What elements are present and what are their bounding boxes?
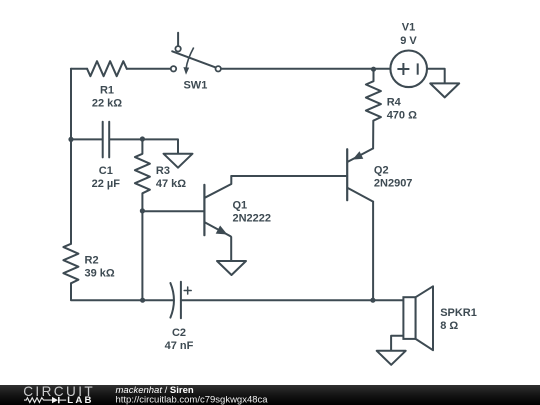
wire left rail bottom + bottom wire to C2 — [71, 283, 173, 300]
transistor Q1 collector diagonal — [205, 176, 231, 198]
ground G1 near R3 — [164, 154, 193, 168]
wire V1 to ground — [427, 69, 445, 84]
svg-text:47 nF: 47 nF — [165, 340, 194, 352]
switch SW1 arrow — [186, 48, 194, 69]
transistor Q1 base wire — [142, 210, 204, 212]
transistor Q2 bar — [346, 149, 348, 200]
wire R1 to SW1 — [127, 68, 171, 70]
svg-text:9 V: 9 V — [400, 35, 417, 47]
node dot bottom wire left — [140, 298, 145, 303]
node dot R3 / Q1 base — [140, 208, 145, 213]
svg-text:Q1: Q1 — [233, 200, 248, 212]
wire C2 to speaker — [181, 299, 404, 301]
wire left rail top segment — [70, 69, 72, 244]
V1 plus symbol — [397, 63, 417, 75]
wire R3 node down to bottom — [141, 211, 143, 300]
resistor R4 — [366, 69, 381, 149]
node dot bottom wire right — [370, 298, 375, 303]
transistor Q2 emitter diagonal — [348, 148, 373, 161]
wire Q1 collector to Q2 base — [231, 175, 347, 177]
switch SW1 top stub — [177, 33, 179, 46]
svg-text:LAB: LAB — [67, 395, 93, 405]
svg-text:Q2: Q2 — [374, 165, 389, 177]
svg-text:C1: C1 — [99, 165, 113, 177]
speaker SPKR1 ground wire — [391, 336, 403, 351]
svg-text:22 kΩ: 22 kΩ — [92, 98, 122, 110]
transistor Q1 bar — [203, 185, 205, 235]
capacitor C1 plates — [102, 122, 104, 158]
svg-text:39 kΩ: 39 kΩ — [85, 268, 115, 280]
capacitor C2 plus sign — [184, 287, 191, 294]
svg-text:R1: R1 — [100, 85, 114, 97]
svg-text:470 Ω: 470 Ω — [387, 110, 417, 122]
wire Q2 collector down — [372, 202, 374, 301]
ground G2 Q1 emitter — [217, 261, 246, 275]
svg-text:http://circuitlab.com/c79sgkwg: http://circuitlab.com/c79sgkwgx48ca — [116, 395, 269, 405]
logo resistor zigzag — [24, 398, 52, 403]
svg-text:2N2222: 2N2222 — [233, 213, 272, 225]
ground G4 speaker — [377, 351, 406, 365]
transistor Q2 collector diagonal — [348, 188, 373, 202]
svg-text:R4: R4 — [387, 97, 402, 109]
voltage source V1 circle — [390, 51, 427, 88]
speaker SPKR1 body — [403, 297, 415, 339]
speaker SPKR1 cone — [416, 286, 433, 350]
svg-text:R2: R2 — [85, 255, 99, 267]
svg-text:22 µF: 22 µF — [92, 178, 121, 190]
wire SW1 to V1 — [221, 68, 391, 70]
wire node to ground G1 — [142, 139, 178, 153]
capacitor C2 wire and curved plate — [170, 283, 174, 318]
switch SW1 blade — [172, 51, 216, 68]
footer bar — [0, 385, 540, 405]
transistor Q1 emitter diagonal — [205, 222, 231, 261]
capacitor C1 wire right — [110, 138, 142, 140]
svg-text:47 kΩ: 47 kΩ — [156, 178, 186, 190]
node dot C1 / R3 — [140, 136, 145, 141]
resistor R2 — [63, 244, 78, 283]
capacitor C1 wire left — [71, 138, 102, 140]
svg-text:C2: C2 — [172, 327, 186, 339]
svg-text:2N2907: 2N2907 — [374, 178, 413, 190]
capacitor C2 straight plate — [180, 282, 182, 319]
transistor Q2 emitter arrow — [353, 151, 364, 159]
svg-text:SPKR1: SPKR1 — [440, 307, 477, 319]
resistor R1 — [87, 61, 127, 76]
V1 minus bar — [417, 63, 419, 74]
ground G3 V1 — [430, 83, 459, 97]
svg-text:8 Ω: 8 Ω — [440, 320, 458, 332]
logo diode arrow — [52, 397, 58, 403]
svg-text:V1: V1 — [402, 22, 415, 34]
wire top from rail to R1 — [71, 68, 87, 70]
switch SW1 terminal circles — [171, 46, 221, 71]
svg-text:SW1: SW1 — [183, 79, 207, 91]
node dot left rail / C1 — [68, 137, 73, 142]
transistor Q1 emitter arrow — [216, 226, 228, 235]
svg-text:R3: R3 — [156, 165, 170, 177]
resistor R3 — [135, 139, 150, 211]
node dot R4 top — [371, 67, 376, 72]
